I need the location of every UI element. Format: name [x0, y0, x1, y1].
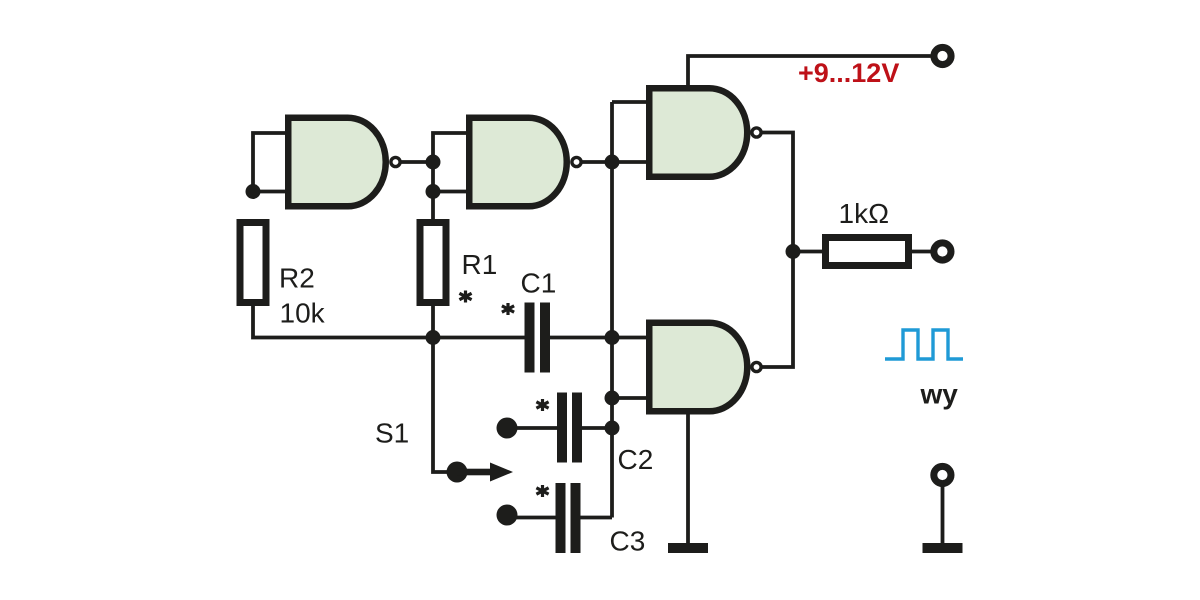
wire R2 bottom to main node	[253, 306, 525, 338]
junction node C2 right	[605, 421, 620, 436]
svg-text:wy: wy	[920, 379, 959, 410]
wire gate1 bottom input	[253, 190, 285, 194]
switch S1 pole and arrow	[447, 462, 514, 483]
wire C3 right lead	[581, 516, 613, 520]
resistor R2	[240, 223, 266, 303]
waveform symbol wy	[885, 330, 963, 359]
wire gate4 bottom input	[612, 396, 646, 400]
wire 1k resistor to output terminal	[909, 250, 932, 254]
resistor R1	[420, 223, 446, 303]
asterisk C1	[502, 303, 514, 315]
svg-text:+9...12V: +9...12V	[798, 58, 899, 88]
capacitor C2	[557, 393, 582, 463]
NAND gate U2	[469, 118, 581, 207]
wire middle column	[610, 102, 614, 518]
junction node gate2 output	[605, 155, 620, 170]
wire gate2 bottom input	[433, 190, 466, 194]
asterisk C3	[536, 485, 548, 497]
wire gate2 input column	[433, 133, 466, 219]
wire gate1 top input	[253, 133, 285, 192]
wire gate4 top input	[612, 336, 646, 340]
wire C2 left lead	[507, 426, 557, 430]
wire C3 left lead	[507, 516, 556, 520]
wire bottom terminal to ground	[941, 483, 945, 543]
wire gate4 ground stub	[686, 415, 690, 544]
junction node gate4 bottom input	[605, 391, 620, 406]
junction node gate2 bottom input / R1	[426, 184, 441, 199]
wire R1 bottom lead	[431, 306, 435, 338]
junction node output resistor tap	[786, 244, 801, 259]
svg-text:10k: 10k	[280, 298, 326, 329]
NAND gate U1	[288, 118, 400, 207]
svg-text:R2: R2	[279, 263, 315, 294]
svg-text:S1: S1	[375, 418, 409, 449]
wire output node to 1k resistor	[793, 250, 826, 254]
wire supply from gate3	[688, 56, 931, 85]
asterisk R1	[459, 291, 471, 303]
wire gate3 bottom input	[612, 160, 646, 164]
svg-text:R1: R1	[462, 249, 498, 280]
wire gate3 top input	[612, 100, 646, 104]
wire C2 right lead	[582, 426, 612, 430]
NAND gate U4	[649, 323, 761, 412]
svg-text:C3: C3	[610, 526, 646, 557]
junction node R1 bottom	[426, 330, 441, 345]
terminal ground	[934, 466, 951, 483]
junction node C1 / gate4 top input	[605, 330, 620, 345]
ground symbol gate4	[668, 543, 708, 553]
terminal +V	[934, 47, 951, 64]
wire gate3 output	[763, 133, 794, 252]
node C2 terminal	[497, 418, 518, 439]
svg-text:C2: C2	[618, 444, 654, 475]
NAND gate U3	[649, 88, 761, 177]
wire gate4 output	[763, 252, 794, 368]
node C3 terminal	[497, 505, 518, 526]
capacitor C3	[556, 483, 581, 553]
wire gate2 output to node	[583, 160, 613, 164]
wire gate1 output to node	[402, 160, 434, 164]
svg-text:1kΩ: 1kΩ	[839, 198, 890, 229]
ground symbol terminal	[923, 543, 963, 553]
capacitor C1	[525, 303, 551, 373]
wire S1 column	[433, 338, 457, 473]
junction node at gate1 inputs	[246, 184, 261, 199]
terminal output	[934, 243, 951, 260]
svg-text:C1: C1	[521, 268, 557, 299]
wire C1 right to column	[550, 336, 612, 340]
resistor 1k ohm output	[826, 238, 909, 266]
asterisk C2	[536, 399, 548, 411]
junction node gate1 output	[426, 155, 441, 170]
